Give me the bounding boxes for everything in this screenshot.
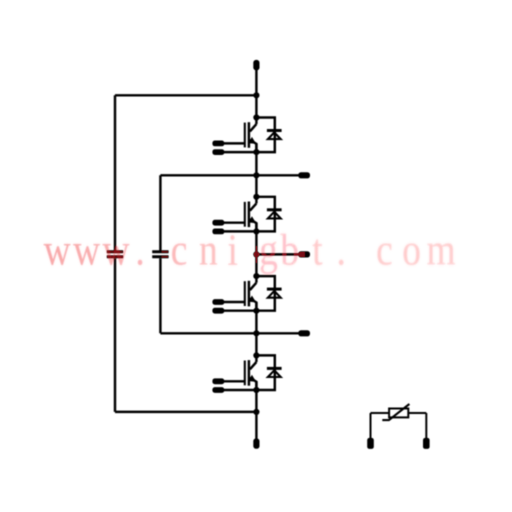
svg-text:www.cnigbt.com: www.cnigbt.com: [44, 224, 456, 274]
